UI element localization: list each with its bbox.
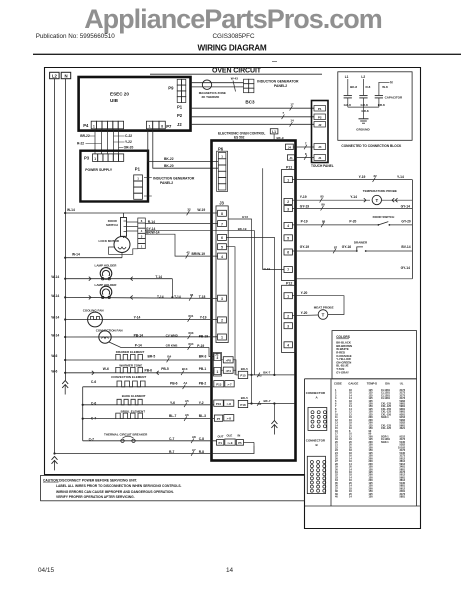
svg-text:W-8: W-8 [382, 85, 388, 89]
svg-text:P6: P6 [218, 146, 224, 151]
wire from P8/P4 to P15 [233, 360, 238, 375]
svg-text:>+E: >+E [227, 441, 232, 445]
connector J3 cell 6 [218, 234, 227, 240]
svg-text:C-6: C-6 [91, 401, 96, 405]
svg-text:P10: P10 [216, 402, 222, 406]
connector B pin grid [307, 456, 325, 493]
svg-text:A8: A8 [192, 435, 196, 439]
svg-text:WIRING ERRORS CAN CAUSE IMPROP: WIRING ERRORS CAN CAUSE IMPROPER AND DAN… [56, 490, 174, 494]
svg-text:OVEN CIRCUIT: OVEN CIRCUIT [212, 68, 262, 75]
svg-text:GR-8: GR-8 [361, 103, 368, 107]
ground bus [348, 106, 379, 108]
svg-text:BR-5: BR-5 [148, 355, 156, 359]
svg-text:P1: P1 [177, 105, 183, 110]
connector P12 cell 1 [284, 293, 292, 299]
svg-text:A6: A6 [185, 413, 189, 417]
svg-text:Y-6: Y-6 [170, 401, 175, 405]
terminal L2 [50, 72, 60, 78]
wire row temperature probe [292, 199, 370, 201]
connector P11 housing [282, 169, 296, 280]
svg-text:CODE: CODE [334, 381, 342, 385]
svg-text:14: 14 [349, 496, 352, 499]
connector P3 cells [93, 154, 98, 162]
svg-text:CGIS3085PFC: CGIS3085PFC [213, 33, 255, 40]
svg-text:C-6: C-6 [91, 380, 96, 384]
svg-text:LABEL ALL WIRES PRIOR TO DISCO: LABEL ALL WIRES PRIOR TO DISCONNECTION W… [56, 484, 182, 488]
svg-text:BK-22: BK-22 [164, 157, 174, 161]
svg-text:Y-19: Y-19 [359, 175, 366, 179]
wire GY-14 from door connector crossing to BK-19 [145, 231, 254, 375]
junction N to lock rail [64, 257, 66, 259]
door switch connector cells [138, 218, 146, 223]
svg-text:PB-2: PB-2 [199, 381, 207, 385]
svg-text:SGR-1: SGR-1 [381, 416, 389, 419]
wire J2-1 to P4 [221, 369, 224, 371]
svg-text:J1: J1 [289, 156, 293, 160]
wire J2 rail to touch panel [191, 123, 315, 125]
module TOUCH PANEL connector strip [312, 101, 329, 163]
junction cooling fan rail [64, 318, 66, 320]
induction generator connector grid [244, 79, 249, 84]
svg-text:LOCK MOTOR: LOCK MOTOR [99, 239, 120, 243]
svg-text:1: 1 [221, 336, 223, 340]
plug P4 box [223, 367, 233, 373]
svg-text:2K THERMO: 2K THERMO [202, 95, 220, 99]
svg-text:W-6: W-6 [51, 354, 57, 358]
connector J3 cell 3 [218, 295, 227, 301]
connector J2 cell 3 [214, 354, 221, 361]
svg-text:B13: B13 [182, 367, 188, 371]
svg-text:W-14: W-14 [72, 252, 80, 256]
svg-text:L1: L1 [272, 130, 276, 134]
plug P5 bottom box [236, 440, 243, 446]
svg-text:GY2: GY2 [242, 215, 248, 219]
svg-text:ESEC 20: ESEC 20 [110, 92, 129, 97]
svg-text:3: 3 [141, 234, 143, 238]
drawer element [116, 354, 143, 360]
svg-text:14: 14 [290, 119, 294, 123]
capacitor plates L2 [359, 95, 367, 97]
svg-text:3: 3 [217, 356, 219, 360]
svg-text:89: 89 [321, 203, 325, 207]
svg-text:CAUTION:DISCONNECT POWER BEFOR: CAUTION:DISCONNECT POWER BEFORE SERVICIN… [43, 478, 137, 482]
svg-text:>-8: >-8 [227, 417, 232, 421]
wire O-19 vertical [263, 168, 284, 269]
connector P7 cells [146, 121, 152, 129]
connector J3 cell 2 [218, 317, 227, 323]
right rail vertical [411, 180, 413, 279]
svg-text:5: 5 [287, 237, 289, 241]
svg-text:P-19: P-19 [301, 220, 308, 224]
svg-text:A1: A1 [258, 402, 262, 406]
svg-text:T-14: T-14 [157, 295, 164, 299]
junction convection fan rail [64, 336, 66, 338]
svg-text:R-8: R-8 [366, 85, 371, 89]
svg-text:P-20: P-20 [349, 220, 356, 224]
svg-text:40: 40 [335, 496, 338, 499]
svg-text:W-14: W-14 [67, 208, 75, 212]
svg-text:634: 634 [188, 342, 193, 346]
svg-text:L2: L2 [361, 75, 365, 79]
plug P15 box [238, 371, 247, 378]
wire rail convection element [83, 386, 214, 388]
svg-text:CONNECTED TO CONNECTION BLOCK: CONNECTED TO CONNECTION BLOCK [341, 144, 402, 148]
lamp holder 1 [100, 268, 112, 280]
plug P8 box [223, 357, 233, 363]
svg-text:BR-22: BR-22 [80, 134, 90, 138]
svg-text:GY-16: GY-16 [342, 245, 352, 249]
svg-text:7: 7 [221, 222, 223, 226]
svg-text:P1: P1 [318, 107, 322, 111]
svg-text:P-19: P-19 [197, 344, 204, 348]
svg-text:P5: P5 [238, 441, 242, 445]
plug P18 box [238, 400, 247, 407]
connector J1 to touch panel [287, 155, 294, 160]
continuation arrow on L2 line below junction [52, 456, 58, 459]
svg-text:4: 4 [287, 344, 289, 348]
svg-text:Publication No: 5995660510: Publication No: 5995660510 [36, 33, 116, 40]
svg-text:T-14: T-14 [155, 275, 162, 279]
connector P11 cell 5 [284, 235, 292, 241]
continuation arrow inside EOC [271, 421, 277, 424]
wire rail L2 return [55, 445, 255, 453]
module POWER SUPPLY [80, 151, 148, 202]
svg-text:T: T [375, 198, 378, 203]
connector J3 cell 7 [218, 221, 227, 227]
svg-text:3: 3 [287, 207, 289, 211]
svg-text:3: 3 [287, 324, 289, 328]
svg-text:1: 1 [93, 124, 95, 128]
svg-text:GR-8: GR-8 [361, 109, 368, 113]
svg-text:Y-14: Y-14 [397, 175, 404, 179]
lamp holder 2 [100, 286, 112, 298]
svg-text:Y-2: Y-2 [199, 401, 204, 405]
junction drawer element rail [64, 359, 66, 361]
wire row GY-19 drawer [292, 250, 357, 252]
wire N drop [379, 82, 390, 95]
wire vertical to continuation arrow [273, 404, 275, 421]
svg-text:Y-20: Y-20 [301, 311, 308, 315]
svg-text:633: 633 [188, 331, 193, 335]
svg-text:88: 88 [322, 219, 326, 223]
svg-text:PANEL2: PANEL2 [160, 181, 173, 185]
svg-text:Y-19: Y-19 [300, 195, 307, 199]
svg-text:DIA: DIA [385, 381, 390, 385]
svg-text:C-22: C-22 [125, 134, 132, 138]
svg-text:P7: P7 [166, 124, 172, 129]
svg-text:DOOR SWITCH: DOOR SWITCH [373, 215, 395, 219]
wire P4 pin5 to P3 [118, 129, 120, 154]
wire L2 drop [363, 79, 365, 95]
connector P1 cells [134, 175, 143, 181]
svg-text:>P8: >P8 [226, 359, 232, 363]
svg-text:C-7: C-7 [91, 417, 96, 421]
svg-text:3321: 3321 [399, 427, 405, 430]
svg-text:Y-22: Y-22 [125, 140, 132, 144]
wire GY2 from J3 housing [228, 219, 251, 375]
connector P11 cell 2 [284, 198, 292, 204]
caution note box [41, 475, 305, 500]
svg-text:BR-3: BR-3 [199, 355, 207, 359]
svg-text:GAUGE: GAUGE [348, 381, 358, 385]
svg-text:2: 2 [287, 200, 289, 204]
wire right rail bottom return [296, 278, 412, 280]
magnetic zone thermostat [202, 80, 211, 89]
svg-text:PANEL2: PANEL2 [274, 84, 287, 88]
drawer switch contact [356, 250, 358, 252]
svg-text:CAPACITOR: CAPACITOR [385, 95, 403, 99]
right panel bottom edge of table [305, 505, 421, 507]
wire rail lamp holder 2 [65, 297, 217, 298]
wire ESEC P9 to induction generator upper [191, 82, 244, 84]
svg-text:BV-14: BV-14 [401, 245, 410, 249]
svg-text:3: 3 [221, 297, 223, 301]
svg-text:O-19: O-19 [264, 267, 271, 271]
colors legend box [332, 331, 417, 379]
connector P12 cell 2 [284, 313, 292, 319]
svg-text:TEMPERATURE PROBE: TEMPERATURE PROBE [363, 189, 397, 193]
convection fan motor [99, 331, 111, 343]
wire row P-19 door switch [292, 224, 379, 226]
svg-text:BL-7: BL-7 [169, 414, 176, 418]
svg-text:BAKE ELEMENT: BAKE ELEMENT [122, 394, 146, 398]
svg-text:BK-8: BK-8 [350, 85, 357, 89]
svg-text:OLE: OLE [227, 434, 233, 438]
svg-text:W-6: W-6 [103, 367, 109, 371]
svg-text:BC3: BC3 [245, 100, 255, 105]
svg-text:P1: P1 [135, 167, 141, 172]
connector J3 cell 4 [218, 253, 227, 259]
main diagram frame [45, 68, 421, 529]
wire P-14 diagonal from convection fan [109, 342, 214, 357]
svg-text:A4: A4 [183, 381, 187, 385]
svg-text:LAMP HOLDER: LAMP HOLDER [95, 264, 118, 268]
svg-text:GY-14: GY-14 [401, 266, 411, 270]
wire P18 to BK-7 row [248, 403, 295, 405]
svg-text:L1: L1 [345, 75, 349, 79]
svg-text:WARMER ZONE: WARMER ZONE [119, 363, 142, 367]
continuation arrow on N line [62, 381, 68, 384]
svg-text:6: 6 [141, 219, 143, 223]
svg-text:MEAT PROBE: MEAT PROBE [314, 306, 334, 310]
wire P4 pin2 to P3 [101, 129, 103, 154]
connector P9 cells [177, 79, 181, 85]
plug P10 pair [214, 400, 224, 406]
svg-text:VERIFY PROPER OPERATION AFTER: VERIFY PROPER OPERATION AFTER SERVICING. [56, 495, 135, 499]
plug P7 pair [214, 415, 222, 421]
wire lamp1 to lamp2 rail bend [171, 279, 173, 298]
svg-text:IN: IN [238, 434, 241, 438]
wire bus to ground [363, 107, 365, 119]
svg-text:UIB: UIB [110, 98, 119, 103]
junction warmer zone rail [64, 372, 66, 374]
element feed vertical [82, 387, 84, 441]
svg-text:R-8: R-8 [199, 450, 204, 454]
svg-text:P2: P2 [318, 115, 322, 119]
svg-text:85: 85 [320, 195, 324, 199]
underline of OVEN CIRCUIT [150, 73, 322, 75]
svg-text:87: 87 [334, 245, 338, 249]
module ELECTRONIC OVEN CONTROL box [212, 141, 296, 461]
wire R-14 from door connector to J3 pin7 [145, 223, 217, 225]
svg-text:P13: P13 [216, 383, 222, 387]
svg-text:T-14: T-14 [174, 295, 181, 299]
connector P11 cell 1 [284, 177, 292, 183]
wire P12-1 loop [292, 296, 344, 315]
svg-text:C-7: C-7 [169, 437, 174, 441]
svg-text:GA-8: GA-8 [344, 103, 351, 107]
svg-text:BK-19: BK-19 [238, 227, 247, 231]
svg-text:Y-20: Y-20 [301, 291, 308, 295]
connector J2 cell 1 [214, 368, 221, 375]
svg-text:L2: L2 [52, 74, 58, 79]
svg-text:1: 1 [287, 178, 289, 182]
svg-text:17: 17 [290, 103, 294, 107]
svg-text:1: 1 [217, 370, 219, 374]
plug OLE middle box [225, 439, 235, 445]
svg-text:GR KNB: GR KNB [166, 344, 179, 348]
connector P12 cell 4 [284, 342, 292, 348]
svg-text:PB-6: PB-6 [170, 381, 178, 385]
svg-text:P2: P2 [177, 113, 183, 118]
svg-text:J2: J2 [177, 122, 182, 127]
svg-text:P18: P18 [240, 403, 246, 407]
svg-text:OR-20: OR-20 [124, 146, 134, 150]
wire N vertical [64, 79, 66, 381]
wire from J3 pin6 right and down [226, 237, 274, 375]
terminal L1 above EOC [270, 129, 278, 134]
svg-text:J3: J3 [219, 201, 224, 206]
svg-text:J2: J2 [318, 123, 322, 127]
temperature probe [372, 195, 381, 204]
svg-text:W-19: W-19 [197, 208, 205, 212]
svg-text:BK-9: BK-9 [277, 136, 284, 140]
svg-text:Y-14: Y-14 [134, 316, 141, 320]
capacitor plates N [375, 95, 383, 97]
svg-text:>-7: >-7 [227, 383, 232, 387]
wire rail broil element [83, 418, 214, 420]
door switch symbol [121, 218, 127, 237]
svg-text:GY-GRAY: GY-GRAY [336, 370, 349, 374]
svg-text:BK-5: BK-5 [241, 396, 248, 400]
svg-text:C-8: C-8 [199, 437, 204, 441]
svg-text:14: 14 [226, 567, 234, 574]
svg-text:6: 6 [221, 236, 223, 240]
connection block box [338, 72, 412, 141]
svg-text:N: N [390, 81, 393, 85]
wire rail W-14 lock motor [65, 257, 122, 259]
ground symbol [359, 118, 369, 120]
svg-text:BR/W-14: BR/W-14 [146, 231, 160, 235]
svg-text:J1: J1 [318, 156, 322, 160]
broil element [116, 413, 143, 419]
cooling fan motor [88, 312, 103, 327]
svg-text:PB-19: PB-19 [199, 334, 209, 338]
svg-text:38: 38 [190, 293, 194, 297]
svg-text:B4: B4 [167, 354, 171, 358]
svg-text:PB-1: PB-1 [199, 367, 207, 371]
wire rail W-14 door switch [65, 212, 217, 214]
svg-text:P4: P4 [83, 123, 89, 128]
svg-text:SGR-1: SGR-1 [381, 441, 389, 444]
capacitor plates L1 [344, 95, 352, 97]
meat probe [318, 310, 328, 320]
svg-text:P7: P7 [217, 417, 221, 421]
svg-text:COLORS: COLORS [336, 335, 350, 339]
junction lamp rail 1 [64, 278, 66, 280]
wire ESEC P9 to induction generator lower [191, 86, 244, 88]
connector P11 cell 6 [284, 249, 292, 255]
svg-text:W-6: W-6 [51, 369, 57, 373]
wire row GY-19 [292, 208, 412, 210]
svg-text:PB-5: PB-5 [161, 367, 169, 371]
bake element [117, 399, 142, 405]
svg-text:8: 8 [161, 124, 163, 128]
svg-text:ES 502: ES 502 [234, 136, 245, 140]
svg-text:CL1281: CL1281 [381, 397, 391, 400]
svg-text:P15: P15 [240, 374, 246, 378]
wire rail cooling fan [65, 319, 217, 321]
stray mark above frame [272, 61, 277, 63]
svg-text:1: 1 [149, 124, 151, 128]
svg-text:32: 32 [373, 174, 377, 178]
svg-text:INDUCTION GENERATOR: INDUCTION GENERATOR [153, 176, 195, 180]
svg-text:4: 4 [141, 229, 143, 233]
svg-text:4: 4 [221, 255, 223, 259]
door switch contact right [378, 224, 380, 226]
svg-text:A7: A7 [192, 448, 196, 452]
wire rail drawer element [65, 359, 213, 361]
svg-text:CXL-125: CXL-125 [381, 427, 392, 430]
svg-text:W-14: W-14 [51, 275, 59, 279]
svg-text:GY-19: GY-19 [300, 245, 310, 249]
wire BK-22 from P7 to P6 [148, 129, 219, 162]
svg-text:A: A [316, 395, 319, 399]
svg-text:BK-20: BK-20 [164, 164, 174, 168]
connector P11 cell 7 [284, 267, 292, 273]
svg-text:GROUND: GROUND [356, 127, 370, 131]
right panel left edge [304, 379, 306, 475]
svg-text:BK-7: BK-7 [263, 370, 270, 374]
svg-text:>-8: >-8 [227, 402, 232, 406]
lock motor [114, 237, 130, 253]
wire thermal to P1 box [215, 441, 217, 442]
svg-text:J4: J4 [318, 145, 322, 149]
svg-text:W-43: W-43 [231, 77, 238, 81]
wire rail convection fan [65, 336, 217, 338]
connector P11 cell 3 [284, 206, 292, 212]
svg-text:Y-19: Y-19 [200, 316, 207, 320]
wire rail thermal breaker [83, 440, 217, 442]
svg-text:1: 1 [137, 177, 139, 181]
svg-text:CONVECTION FAN: CONVECTION FAN [96, 328, 123, 332]
svg-text:UL: UL [400, 381, 404, 385]
wire rail bake element [83, 404, 214, 406]
svg-text:BK-5: BK-5 [241, 367, 248, 371]
svg-text:OUT: OUT [218, 434, 224, 438]
terminal N [61, 72, 70, 78]
wires switch to connector [127, 221, 138, 223]
wire rail lamp holder 1 [65, 278, 172, 280]
svg-text:P3: P3 [84, 156, 90, 161]
junction lamp rail 2 [64, 296, 66, 298]
svg-text:04/15: 04/15 [38, 567, 54, 574]
svg-text:DRAWER ELEMENT: DRAWER ELEMENT [116, 350, 145, 354]
wire L2 vertical [54, 79, 56, 454]
svg-text:GY-14: GY-14 [401, 204, 411, 208]
junction broil rail [82, 418, 84, 420]
svg-text:P1: P1 [218, 441, 222, 445]
